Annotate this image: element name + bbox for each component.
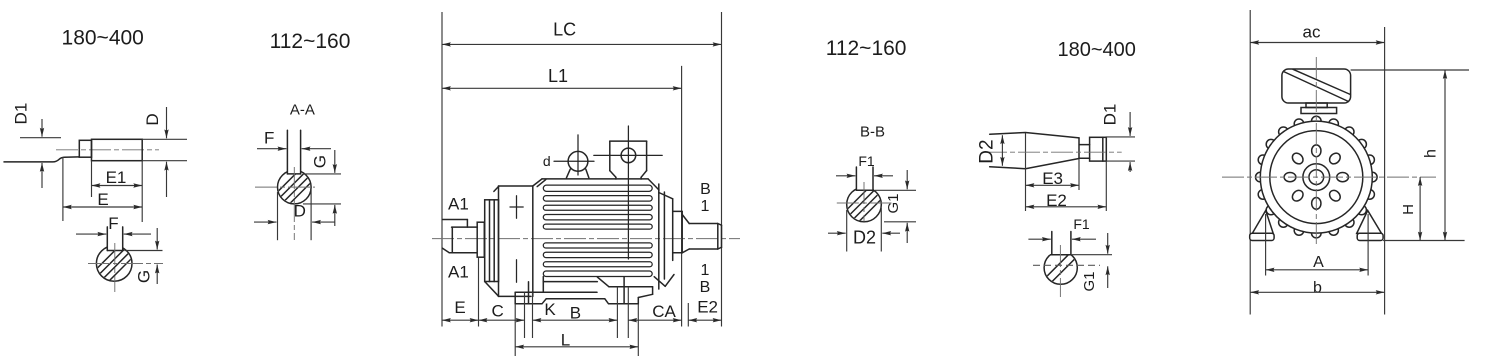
svg-text:H: H (1400, 204, 1417, 215)
svg-text:A1: A1 (448, 263, 469, 282)
svg-text:180~400: 180~400 (1057, 39, 1135, 61)
svg-text:D1: D1 (1101, 104, 1120, 126)
svg-text:K: K (544, 300, 556, 319)
svg-text:h: h (1423, 149, 1440, 158)
svg-text:1: 1 (700, 262, 709, 279)
svg-text:112~160: 112~160 (270, 30, 351, 53)
svg-text:ac: ac (1303, 23, 1321, 42)
svg-text:LC: LC (553, 20, 576, 40)
svg-text:D: D (294, 202, 306, 221)
svg-text:G: G (135, 270, 154, 283)
svg-text:G1: G1 (1081, 271, 1098, 291)
svg-text:C: C (492, 302, 504, 321)
svg-text:A-A: A-A (290, 102, 315, 119)
svg-text:A: A (1313, 254, 1324, 271)
svg-text:F: F (264, 129, 274, 148)
svg-text:180~400: 180~400 (62, 27, 144, 50)
svg-text:112~160: 112~160 (826, 37, 907, 60)
svg-text:F: F (108, 214, 118, 233)
svg-text:1: 1 (700, 198, 709, 215)
svg-text:b: b (1313, 280, 1322, 297)
svg-text:d: d (543, 153, 551, 169)
svg-text:E1: E1 (106, 168, 127, 187)
svg-text:D: D (143, 113, 162, 125)
svg-text:D2: D2 (977, 139, 998, 163)
svg-text:B-B: B-B (860, 124, 885, 141)
svg-text:E2: E2 (697, 297, 718, 316)
svg-text:B: B (700, 181, 711, 198)
svg-text:D1: D1 (12, 103, 31, 125)
svg-text:G1: G1 (885, 193, 902, 213)
svg-text:L1: L1 (548, 66, 568, 86)
svg-text:CA: CA (652, 302, 676, 321)
svg-text:B: B (700, 279, 711, 296)
svg-text:G: G (310, 155, 329, 168)
svg-text:D2: D2 (853, 228, 876, 248)
svg-text:F1: F1 (858, 153, 875, 169)
svg-text:E: E (97, 190, 108, 209)
svg-text:A1: A1 (448, 195, 469, 214)
svg-text:F1: F1 (1073, 216, 1090, 232)
svg-text:E: E (454, 298, 465, 317)
